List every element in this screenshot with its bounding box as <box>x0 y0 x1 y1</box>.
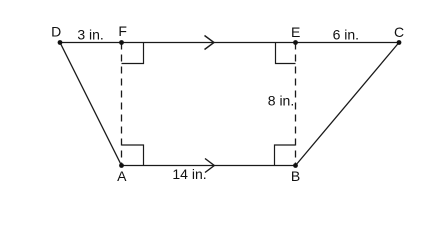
node F <box>119 40 124 45</box>
svg-text:D: D <box>51 24 61 40</box>
node E <box>293 40 298 45</box>
svg-text:3 in.: 3 in. <box>77 27 103 43</box>
right angle mark at F <box>122 43 144 64</box>
svg-text:C: C <box>394 24 404 40</box>
wire: bottom side A-B <box>122 165 296 167</box>
svg-text:6 in.: 6 in. <box>333 27 359 43</box>
wire: left leg D-A <box>60 43 122 166</box>
svg-text:B: B <box>291 168 300 184</box>
wire: right leg C-B <box>296 43 400 166</box>
right angle mark at E <box>276 43 296 64</box>
right angle mark at B <box>275 145 296 166</box>
node B <box>293 163 298 168</box>
arrow: parallel mark on bottom side <box>205 159 214 173</box>
wire: top side D-C <box>60 42 399 44</box>
node A <box>119 163 124 168</box>
svg-text:14 in.: 14 in. <box>172 166 206 182</box>
node D <box>58 40 63 45</box>
svg-text:F: F <box>118 23 127 39</box>
svg-text:8 in.: 8 in. <box>268 93 294 109</box>
wire: dashed altitude E-B <box>295 43 297 166</box>
node C <box>397 40 402 45</box>
arrow: parallel mark on top side <box>205 36 215 50</box>
svg-text:E: E <box>291 24 300 40</box>
right angle mark at A <box>122 145 144 166</box>
svg-text:A: A <box>117 168 127 184</box>
wire: dashed altitude F-A <box>121 43 123 166</box>
